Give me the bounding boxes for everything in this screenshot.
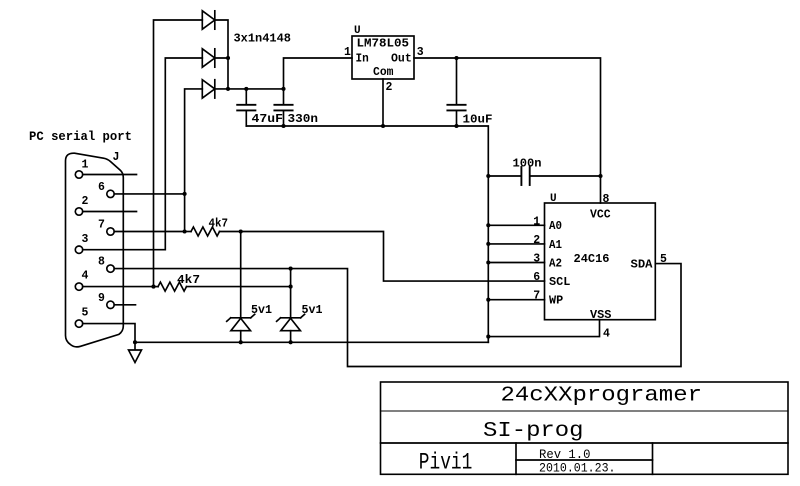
svg-text:8: 8: [98, 256, 105, 269]
svg-text:3x1n4148: 3x1n4148: [234, 33, 292, 46]
zener diode Z2 5v1: [277, 269, 305, 343]
wire: DB9 pin4 row: [83, 286, 154, 288]
svg-text:2010.01.23.: 2010.01.23.: [539, 461, 616, 476]
resistor R1 4k7: [185, 227, 241, 236]
junction: A1 on rail: [486, 242, 490, 246]
capacitor C1 47uF: [237, 89, 255, 126]
wire: regulator Out to VCC rail: [414, 58, 601, 203]
junction: Z2 on ground row: [289, 340, 293, 344]
junction: 100n right on VCC rail: [598, 174, 602, 178]
svg-text:7: 7: [533, 290, 540, 303]
junction: 330n top / regulator feed: [281, 87, 285, 91]
DB9 pin 4: [75, 283, 82, 290]
diode D3 1n4148: [202, 80, 215, 98]
svg-text:Pivi1: Pivi1: [419, 450, 473, 477]
svg-text:A2: A2: [549, 257, 562, 270]
DB9 pin 3: [75, 246, 82, 253]
zener diode Z1 5v1: [227, 232, 255, 343]
title block row separator 2: [381, 442, 789, 444]
title block column separator 2: [652, 443, 654, 474]
IC U1 24C16 box: [545, 203, 656, 320]
junction: pin4 / D1 feed / R2: [151, 285, 155, 289]
diode D1 1n4148: [202, 11, 215, 29]
svg-text:U: U: [550, 193, 557, 205]
svg-text:3: 3: [533, 253, 540, 266]
svg-text:330n: 330n: [288, 113, 319, 126]
svg-text:4: 4: [603, 327, 610, 340]
junction: R1 right / zener Z1: [239, 229, 243, 233]
svg-text:VCC: VCC: [590, 209, 611, 222]
svg-text:1: 1: [344, 46, 351, 59]
junction: pin5 ground: [133, 340, 137, 344]
title block middle divider: [516, 459, 653, 461]
svg-text:SDA: SDA: [631, 258, 653, 271]
svg-text:1: 1: [533, 215, 540, 228]
junction: Z1 on ground row: [239, 340, 243, 344]
title block outer box: [381, 382, 789, 474]
svg-text:24C16: 24C16: [574, 252, 610, 266]
DB9 pin 2: [75, 208, 82, 215]
svg-text:2: 2: [82, 195, 89, 208]
svg-text:SCL: SCL: [549, 276, 570, 289]
svg-text:SI-prog: SI-prog: [483, 419, 584, 443]
wire: D1 cathode to common rail: [215, 20, 228, 58]
wire: feed up to regulator In: [284, 58, 353, 89]
svg-text:U: U: [354, 25, 361, 37]
wire: VSS to chip pin4: [488, 320, 599, 337]
junction: 100n left on rail: [486, 174, 490, 178]
DB9 pin 7: [107, 228, 114, 235]
svg-text:In: In: [356, 53, 369, 66]
junction: WP on rail: [486, 298, 490, 302]
junction: SDA row / zener Z2: [289, 267, 293, 271]
svg-text:6: 6: [533, 271, 540, 284]
wire: DB9 pin4 up to diode D1 feed: [154, 20, 203, 287]
wire: ground top row (cap bottoms): [246, 126, 488, 342]
svg-text:100n: 100n: [513, 158, 542, 171]
junction: 47uF top: [244, 87, 248, 91]
wire: chip pin2 A1: [488, 243, 544, 245]
svg-text:PC serial port: PC serial port: [29, 130, 132, 144]
svg-text:47uF: 47uF: [252, 113, 284, 126]
wire: SCL from R1 to chip pin6: [241, 232, 545, 282]
svg-text:LM78L05: LM78L05: [357, 38, 410, 51]
wire: D3 cathode row to capacitors: [215, 88, 284, 90]
wire: ground row: [135, 341, 488, 343]
wire: diode D3 feed vertical (pin6/pin7 net): [185, 89, 203, 232]
wire: chip pin3 A2: [488, 262, 544, 264]
junction: 10uF top: [454, 56, 458, 60]
wire: DB9 pin1 stub: [83, 174, 137, 176]
svg-text:4k7: 4k7: [209, 218, 229, 231]
wire: DB9 pin5 to ground: [83, 324, 135, 343]
svg-text:6: 6: [98, 181, 105, 194]
junction: A0 on rail: [486, 223, 490, 227]
svg-text:A1: A1: [549, 239, 562, 252]
junction: A2 on rail: [486, 260, 490, 264]
title block row separator 1: [381, 410, 789, 412]
svg-text:3: 3: [82, 233, 89, 246]
svg-text:VSS: VSS: [590, 309, 611, 322]
svg-text:Com: Com: [373, 66, 394, 79]
wire: DB9 pin9 stub: [114, 304, 135, 306]
wire: DB9 pin6 to junction: [114, 193, 184, 195]
wire: DB9 pin2 stub: [83, 211, 137, 213]
svg-text:5v1: 5v1: [251, 304, 272, 317]
wire: DB9 pin3 to diode D2 feed: [83, 58, 203, 250]
svg-text:24cXXprogramer: 24cXXprogramer: [501, 384, 703, 408]
svg-text:J: J: [113, 151, 120, 164]
svg-text:5v1: 5v1: [302, 304, 323, 317]
junction: VSS on rail: [486, 335, 490, 339]
wire: chip pin7 WP: [488, 299, 544, 301]
DB9 pin 6: [107, 190, 114, 197]
svg-text:4k7: 4k7: [177, 274, 200, 287]
svg-text:2: 2: [386, 81, 393, 94]
junction: D2 output on rail: [226, 56, 230, 60]
wire: D2 cathode to rail: [215, 58, 228, 89]
svg-text:A0: A0: [549, 220, 562, 233]
junction: 330n bottom: [281, 124, 285, 128]
DB9 pin 9: [107, 301, 114, 308]
junction: pin7 / D3 feed / R1: [183, 229, 187, 233]
DB9 pin 8: [107, 265, 114, 272]
junction: 10uF bottom: [454, 124, 458, 128]
DB9 pin 5: [75, 320, 82, 327]
diode D2 1n4148: [202, 49, 215, 67]
capacitor C2 330n: [274, 89, 292, 126]
svg-text:3: 3: [417, 46, 424, 59]
resistor R2 4k7: [154, 282, 291, 291]
svg-text:1: 1: [82, 159, 89, 172]
wire: SDA net pin8 row: [114, 264, 681, 367]
junction: pin6 on D3 feed: [183, 192, 187, 196]
wire: DB9 pin7 to junction: [114, 231, 184, 233]
svg-text:8: 8: [603, 193, 610, 206]
capacitor C3 10uF: [447, 58, 465, 126]
junction: rail meets D3 row: [226, 87, 230, 91]
svg-text:10uF: 10uF: [463, 114, 493, 127]
junction: Com on row: [381, 124, 385, 128]
wire: chip pin1 A0: [488, 224, 544, 226]
title block column separator 1: [515, 443, 517, 474]
svg-text:5: 5: [82, 307, 89, 320]
svg-text:WP: WP: [549, 295, 563, 308]
DB9 pin 1: [75, 171, 82, 178]
svg-text:9: 9: [98, 292, 105, 305]
svg-text:2: 2: [533, 234, 540, 247]
junction: R2 right on zener Z2 line: [289, 285, 293, 289]
ground symbol: [129, 342, 142, 362]
svg-text:4: 4: [82, 270, 89, 283]
capacitor C4 100n: [488, 167, 600, 185]
svg-text:Out: Out: [391, 53, 412, 66]
svg-text:7: 7: [98, 219, 105, 232]
connector J DB9 outline: [66, 153, 124, 347]
wire: regulator Com down: [382, 79, 384, 126]
voltage regulator U2 LM78L05 box: [352, 36, 414, 79]
